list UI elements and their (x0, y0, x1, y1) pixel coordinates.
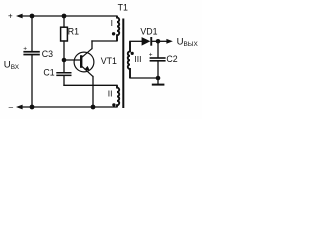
arrow output (right-pointing) (166, 39, 172, 44)
svg-text:–: – (9, 103, 14, 112)
node dot bottom rail / C3 (30, 105, 35, 110)
svg-text:C2: C2 (166, 54, 177, 64)
node dot C2 bottom (156, 76, 161, 81)
svg-text:VD1: VD1 (140, 27, 157, 37)
winding I (117, 16, 119, 41)
wire collector vertical (91, 41, 93, 49)
arrow input minus (left-pointing) (16, 105, 23, 110)
node dot top rail / R1 (62, 14, 67, 19)
wire C1 bottom lead (63, 76, 65, 85)
wire base lead (64, 59, 80, 61)
node dot top rail / C3 (30, 14, 35, 19)
svg-text:III: III (134, 54, 141, 64)
wire bottom rail (19, 106, 117, 108)
resistor R1 (61, 26, 80, 41)
svg-text:+: + (149, 51, 153, 58)
svg-text:R1: R1 (68, 26, 79, 36)
phase dot winding II (112, 103, 115, 106)
wire ground stub (157, 78, 159, 84)
wire C2 top lead (157, 41, 159, 57)
wire winding III bottom to node (130, 77, 158, 79)
wire R1 top lead (63, 16, 65, 27)
core (122, 19, 124, 109)
diode VD1 (140, 27, 157, 46)
node dot base (62, 58, 67, 63)
wire emitter vertical (92, 77, 94, 108)
arrow input plus (left-pointing) (16, 14, 23, 19)
svg-text:C1: C1 (43, 67, 54, 77)
wire C1 to winding II (64, 84, 117, 86)
ground (152, 84, 165, 86)
transistor VT1 (74, 49, 117, 77)
winding II (117, 85, 119, 107)
wire winding III top to diode (130, 40, 142, 42)
node dot output (156, 39, 161, 44)
wire C3 branch upper (31, 16, 33, 51)
capacitor C2 (149, 51, 178, 64)
node dot bottom rail / emitter (91, 105, 96, 110)
phase dot winding I (112, 32, 115, 35)
wire R1 bottom lead to base node (63, 41, 65, 60)
wire C1 top lead (63, 60, 65, 72)
wire collector horizontal (92, 40, 117, 42)
wire C2 bottom lead (157, 61, 159, 78)
wire diode to output node (152, 40, 158, 42)
svg-text:I: I (111, 18, 113, 28)
wire output arrow shaft (158, 40, 168, 42)
capacitor C1 (43, 67, 71, 77)
winding III (128, 41, 130, 78)
svg-text:VT1: VT1 (101, 56, 117, 66)
svg-text:+: + (23, 46, 27, 53)
phase dot winding III (131, 52, 134, 55)
wire top rail (19, 15, 117, 17)
svg-text:T1: T1 (118, 2, 128, 12)
svg-text:II: II (108, 89, 113, 99)
transformer T1 (108, 2, 142, 108)
wire C3 branch lower (31, 55, 33, 107)
capacitor C3 (23, 46, 53, 60)
svg-text:+: + (8, 12, 13, 21)
svg-text:C3: C3 (42, 49, 53, 59)
